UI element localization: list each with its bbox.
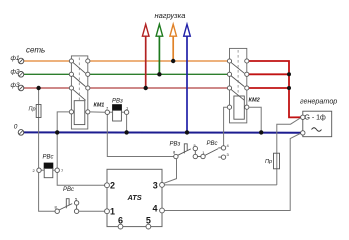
svg-text:РВз: РВз — [112, 99, 123, 105]
KM2 coil — [227, 96, 249, 119]
svg-text:3: 3 — [153, 180, 158, 190]
svg-text:сеть: сеть — [26, 46, 45, 55]
relay coil RVs (bottom left) — [33, 155, 65, 178]
svg-text:8: 8 — [173, 150, 176, 155]
junction neutral KM1 — [55, 130, 59, 134]
svg-text:генератор: генератор — [300, 96, 337, 105]
svg-text:РВс: РВс — [43, 155, 54, 161]
KM1 dashed linkage — [78, 58, 80, 101]
junction red feed mid — [287, 72, 291, 76]
wire phase L3 red left segment — [24, 87, 70, 89]
wire phase L3 red middle segment — [90, 87, 228, 89]
wire phase L1 orange middle segment — [90, 60, 228, 62]
wire KM2 coil left down to RVs contact 4 — [224, 107, 228, 146]
ATS terminal 3 — [153, 180, 165, 190]
wire phase L2 green middle segment — [90, 73, 228, 75]
KM2 pole 1 — [227, 59, 249, 73]
svg-text:6: 6 — [118, 216, 123, 226]
wire generator feed red top — [249, 61, 302, 117]
svg-text:2: 2 — [33, 168, 36, 173]
svg-text:4: 4 — [153, 204, 158, 214]
svg-text:РВз: РВз — [170, 142, 181, 148]
svg-text:5: 5 — [146, 216, 151, 226]
junction neutral RVz — [124, 130, 128, 134]
load arrow blue — [184, 24, 191, 132]
contactor KM2 main box — [230, 48, 247, 123]
junction ф3 tap — [36, 86, 40, 90]
svg-text:КМ1: КМ1 — [94, 103, 105, 109]
svg-text:1: 1 — [126, 106, 129, 111]
relay coil RVz — [105, 99, 129, 122]
wire phase L2 green left segment — [24, 73, 70, 75]
contact RVz timed (near ATS3) — [170, 142, 201, 159]
svg-text:КМ2: КМ2 — [249, 98, 261, 104]
wire ATS4 to generator neutral — [164, 134, 300, 211]
svg-text:1: 1 — [110, 206, 115, 216]
fuse Pr left — [29, 89, 42, 168]
generator terminal top — [301, 115, 305, 119]
svg-text:2: 2 — [110, 181, 115, 191]
svg-text:ATS: ATS — [127, 193, 142, 202]
wire KM1 coil left to neutral and ATS2 — [57, 112, 105, 185]
load arrow orange — [170, 24, 177, 61]
svg-text:7: 7 — [106, 106, 109, 111]
terminal ф3 — [11, 82, 24, 91]
junction red feed bottom — [287, 86, 291, 90]
terminal ф1 — [11, 55, 24, 64]
KM2 pole 3 — [227, 86, 249, 100]
ATS terminal 2 — [105, 181, 115, 191]
junction load red — [144, 86, 148, 90]
wire phase L1 orange left segment — [24, 60, 70, 62]
wire generator feed red mid — [249, 73, 289, 75]
label сеть — [26, 46, 45, 55]
wire neutral blue — [24, 131, 301, 133]
junction load green — [157, 72, 161, 76]
KM2 pole 2 — [227, 72, 249, 86]
svg-text:РВс: РВс — [207, 141, 218, 147]
svg-text:0: 0 — [14, 123, 18, 130]
ATS terminal 4 — [153, 204, 165, 214]
svg-text:4: 4 — [227, 143, 230, 148]
wire RVz right terminal to neutral — [126, 114, 128, 131]
wire KM2 coil right to neutral — [249, 107, 261, 131]
contactor KM1 main box — [71, 56, 87, 129]
KM1 pole 1 — [69, 59, 90, 73]
wire KM1 coil right to RVz coil — [90, 111, 105, 113]
ATS terminal 6 — [118, 216, 123, 230]
contact RVs timed (to ATS1) — [55, 187, 105, 213]
svg-text:7: 7 — [61, 168, 64, 173]
svg-text:G - 1ф: G - 1ф — [305, 115, 327, 122]
svg-text:РВс: РВс — [63, 187, 74, 193]
load arrow red — [142, 24, 149, 88]
ATS box — [107, 169, 162, 226]
svg-text:нагрузка: нагрузка — [155, 11, 186, 20]
load arrow green — [156, 24, 163, 74]
wire generator feed red bottom — [249, 87, 289, 89]
terminal 0 — [14, 123, 24, 135]
KM1 pole 2 — [69, 72, 90, 86]
svg-text:Пр: Пр — [265, 159, 272, 165]
wire RVz left terminal down to RVz contact 8 — [107, 114, 173, 156]
ATS terminal 5 — [146, 216, 151, 230]
ATS terminal 1 — [105, 206, 115, 216]
KM2 dashed linkage — [237, 50, 239, 96]
KM1 pole 3 — [69, 86, 90, 100]
junction load orange — [171, 59, 175, 63]
label KM2 — [249, 98, 261, 104]
svg-text:Пр: Пр — [29, 107, 36, 113]
terminal ф2 — [11, 68, 24, 77]
wire ATS3 right to fuse Pr right — [164, 184, 276, 186]
label KM1 — [94, 103, 105, 109]
label генератор — [300, 96, 337, 105]
generator box — [303, 111, 332, 137]
junction neutral KM2 — [259, 130, 263, 134]
wire RVs coil left down to RVs contact — [39, 172, 55, 211]
junction load blue neutral — [185, 130, 189, 134]
generator terminal bottom — [301, 131, 305, 135]
svg-text:3: 3 — [227, 152, 230, 157]
label нагрузка — [155, 11, 186, 20]
wire ATS3 up to RVz contact 8 — [164, 159, 177, 184]
fuse Pr right — [265, 118, 300, 185]
KM1 coil — [69, 101, 90, 125]
contact RVs changeover (to KM2 coil) — [201, 141, 230, 159]
